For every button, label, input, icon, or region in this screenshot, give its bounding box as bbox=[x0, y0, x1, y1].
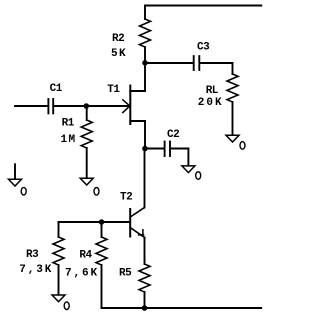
ground (input, floating) bbox=[9, 164, 22, 186]
resistor R2 bbox=[140, 6, 151, 63]
svg-text:C2: C2 bbox=[167, 129, 179, 141]
wire node A down to T1 drain bbox=[144, 63, 146, 91]
wire node B down to T2 collector bbox=[144, 149, 146, 208]
wire bottom rail bbox=[102, 307, 262, 309]
ground (RL) bbox=[226, 135, 239, 142]
svg-text:C1: C1 bbox=[50, 83, 63, 95]
svg-text:C3: C3 bbox=[197, 41, 210, 53]
svg-text:R1: R1 bbox=[62, 117, 75, 129]
label 0 (C2 ground) bbox=[196, 172, 201, 180]
svg-text:R5: R5 bbox=[119, 268, 132, 280]
resistor RL bbox=[227, 74, 238, 135]
svg-text:T2: T2 bbox=[120, 192, 132, 204]
node base junction dot (base / R4) bbox=[99, 219, 105, 225]
svg-text:20K: 20K bbox=[198, 97, 224, 109]
wire base node to R3 bbox=[58, 222, 60, 237]
resistor R5 bbox=[139, 264, 150, 308]
resistor R3 bbox=[53, 237, 64, 295]
ground (R1) bbox=[80, 178, 93, 185]
svg-text:7,3K: 7,3K bbox=[19, 264, 53, 276]
svg-text:T1: T1 bbox=[107, 84, 120, 96]
wire T1 source down to node B bbox=[144, 121, 146, 149]
node A junction dot (R2 / C3 / T1 drain) bbox=[142, 60, 148, 66]
capacitor C2 bbox=[165, 142, 170, 157]
wire node A to C3 bbox=[145, 62, 193, 64]
capacitor C1 bbox=[48, 99, 53, 113]
svg-text:R4: R4 bbox=[79, 250, 92, 262]
label 0 (R1 ground) bbox=[94, 188, 99, 196]
svg-text:5K: 5K bbox=[111, 48, 127, 60]
svg-text:R3: R3 bbox=[26, 249, 39, 261]
node input junction dot (C1 / R1 / gate) bbox=[84, 103, 90, 109]
node bottom junction dot (R5 / bottom rail) bbox=[142, 305, 148, 311]
ground (C2) bbox=[182, 166, 195, 173]
label 0 (R3 ground) bbox=[64, 302, 69, 310]
capacitor C3 bbox=[194, 56, 200, 70]
wire C3 to RL bbox=[200, 63, 232, 74]
wire C2 to its ground bbox=[171, 149, 188, 166]
svg-text:RL: RL bbox=[206, 85, 219, 97]
wire input bbox=[15, 105, 47, 107]
node B junction dot (T1 source / C2 / T2 collector) bbox=[142, 146, 148, 152]
label 0 (input ground) bbox=[21, 187, 26, 195]
wire C1 to T1 gate bbox=[54, 105, 129, 107]
wire T2 base bbox=[59, 221, 130, 223]
svg-text:7,6K: 7,6K bbox=[65, 267, 99, 279]
wire T2 emitter down to R5 bbox=[144, 238, 146, 265]
wire top supply rail bbox=[145, 5, 261, 7]
svg-text:R2: R2 bbox=[112, 33, 124, 45]
transistor T1 (JFET) bbox=[123, 86, 145, 125]
svg-text:1M: 1M bbox=[61, 134, 77, 146]
wire node B to C2 bbox=[145, 148, 164, 150]
resistor R4 bbox=[96, 222, 107, 308]
label 0 (RL ground) bbox=[240, 142, 245, 150]
transistor T2 (BJT) bbox=[130, 208, 144, 238]
ground (R3) bbox=[52, 295, 65, 302]
resistor R1 bbox=[81, 106, 92, 178]
